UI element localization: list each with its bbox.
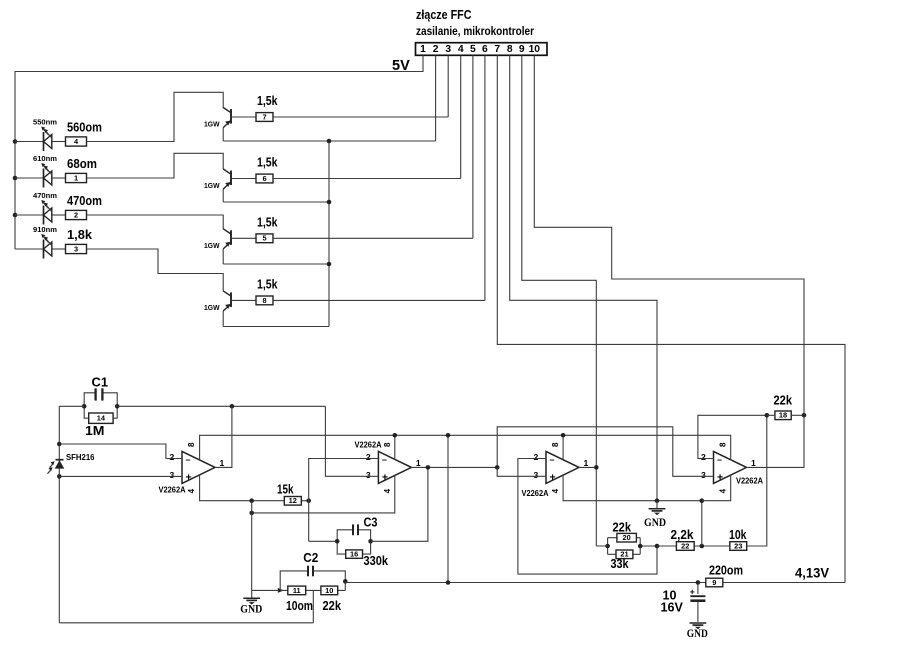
node R18 left [765, 413, 770, 418]
svg-text:1,5k: 1,5k [257, 156, 278, 170]
svg-text:1: 1 [416, 458, 421, 468]
node rail-V+ [446, 580, 451, 585]
resistor R11 box [288, 586, 306, 595]
svg-text:–: – [382, 454, 387, 464]
wire U3 pin8 riser [562, 435, 564, 460]
5V label [392, 58, 410, 74]
wire pin9 down [522, 55, 597, 546]
resistor R12 box [284, 496, 301, 505]
svg-text:6: 6 [482, 44, 488, 55]
ground G3 [690, 623, 707, 629]
LED D3 470nm [15, 200, 66, 225]
svg-text:2: 2 [74, 210, 78, 219]
svg-text:4: 4 [458, 44, 464, 55]
svg-text:10om: 10om [286, 599, 313, 613]
svg-text:2: 2 [170, 452, 175, 462]
op-amp U4 [714, 451, 747, 483]
svg-text:8: 8 [551, 442, 560, 447]
LED D2 610nm [15, 163, 66, 188]
node cap tap [696, 580, 701, 585]
node U2 -in net [306, 498, 311, 503]
wire U1 out to U2 +in [325, 406, 378, 476]
FFC connector title [416, 8, 472, 22]
resistors R20/R21 parallel [596, 538, 657, 555]
svg-text:14: 14 [97, 414, 106, 423]
svg-text:1GW: 1GW [204, 120, 220, 129]
label GND G3 [687, 627, 708, 640]
wire U4 -in riser [698, 415, 767, 458]
svg-text:C1: C1 [92, 375, 109, 390]
svg-text:1: 1 [220, 458, 225, 468]
svg-text:9: 9 [519, 44, 525, 55]
svg-text:1,8k: 1,8k [67, 228, 93, 242]
svg-text:3: 3 [74, 244, 78, 253]
wire R18 left stub [767, 414, 775, 416]
svg-text:220om: 220om [709, 563, 743, 577]
wire R7 to pin3 [273, 116, 448, 118]
label 4,13V [795, 565, 829, 581]
wire U4 pin4 [702, 475, 731, 501]
label 550nm [33, 117, 57, 126]
node emitter rail top [327, 139, 332, 144]
node gnd tap [249, 498, 254, 503]
wire pin5 down [472, 55, 474, 238]
svg-text:1: 1 [74, 173, 78, 182]
resistor R2 box [66, 210, 87, 219]
label 1M [85, 424, 105, 438]
node U3 pin8 [561, 433, 566, 438]
node 5V-row2 [13, 176, 18, 181]
capacitor C3 [337, 524, 370, 554]
svg-text:GND: GND [240, 603, 262, 616]
svg-text:–: – [550, 454, 555, 464]
resistor R5 box [256, 234, 273, 243]
label GND G1 [240, 603, 262, 616]
svg-text:12: 12 [289, 496, 297, 505]
node U3 out [594, 465, 599, 470]
wire gnd to C2 [252, 589, 281, 591]
wire U4 output fb [747, 415, 805, 467]
wire R5 to pin5 [273, 237, 473, 239]
capacitor C4 electrolytic [690, 583, 706, 622]
node C1 right [115, 404, 120, 409]
svg-text:+: + [186, 471, 192, 483]
wire Q1 base [231, 116, 256, 118]
wire mid div to gnd rail [701, 501, 703, 546]
label V2262A U3 [522, 489, 549, 498]
op-amp U3 [546, 451, 579, 483]
node 5V-row3 [13, 213, 18, 218]
label 1,5k Q1 [257, 94, 278, 108]
svg-text:610nm: 610nm [33, 154, 57, 163]
wire R18 right [791, 414, 804, 416]
svg-text:8: 8 [507, 44, 513, 55]
node C3 right [368, 539, 373, 544]
svg-text:8: 8 [383, 442, 392, 447]
emitter common rail [328, 141, 330, 327]
resistor R7 box [256, 112, 273, 121]
ground G2 [649, 501, 666, 515]
LED D4 910nm [15, 234, 66, 259]
wire Q3 base [231, 237, 256, 239]
resistor R18 box [775, 411, 791, 420]
label 560om [67, 120, 102, 134]
svg-text:4: 4 [551, 488, 560, 493]
node U1 fb [230, 404, 235, 409]
label V2262A U1 [159, 485, 186, 494]
node gnd rail end [700, 498, 705, 503]
op-amp U2 pin labels [366, 442, 421, 493]
svg-text:3: 3 [445, 44, 451, 55]
label 330k [364, 554, 389, 568]
node mid div [700, 544, 705, 549]
svg-text:10: 10 [325, 586, 333, 595]
capacitor C2 [280, 566, 345, 591]
node 5V-row1 [13, 139, 18, 144]
wire Q1 emitter to pin2 [223, 140, 435, 142]
wire to U1 +in [59, 475, 182, 477]
svg-text:8: 8 [187, 442, 196, 447]
resistor R16 box [346, 550, 363, 559]
svg-text:11: 11 [293, 586, 301, 595]
wire pin6 down [484, 55, 486, 300]
transistor Q2 [223, 169, 231, 202]
wire to U3 +in [497, 467, 546, 476]
wire V+ to 4,13V rail [447, 435, 449, 582]
svg-text:10k: 10k [729, 528, 747, 542]
wire U1 output up [215, 406, 232, 467]
resistor R8 box [256, 296, 273, 305]
svg-text:V2262A: V2262A [355, 441, 382, 450]
svg-text:23: 23 [734, 541, 742, 550]
connector J1 (10-pin FFC) [416, 43, 548, 56]
svg-text:1GW: 1GW [204, 181, 220, 190]
svg-text:470nm: 470nm [33, 191, 57, 200]
wire Q2 base [231, 178, 256, 180]
svg-text:SFH216: SFH216 [66, 453, 95, 462]
svg-text:3: 3 [366, 470, 371, 480]
svg-text:–: – [186, 454, 191, 464]
op-amp U2 [378, 451, 411, 483]
label 1GW Q4 [204, 303, 220, 312]
wire U3 -in [518, 459, 657, 575]
wire R8 to pin6 [273, 299, 485, 301]
wire U2 pin8 riser [394, 435, 396, 460]
svg-text:16V: 16V [661, 601, 684, 615]
wire Q3 emitter [223, 263, 329, 265]
resistor R23 box [730, 541, 747, 550]
svg-text:22: 22 [681, 541, 689, 550]
svg-text:3: 3 [170, 470, 175, 480]
ground G1 [243, 598, 260, 604]
svg-text:4: 4 [187, 488, 196, 493]
node U2 out fb [426, 465, 431, 470]
svg-text:18: 18 [779, 411, 787, 420]
label 16V [661, 601, 684, 615]
svg-text:7: 7 [494, 44, 500, 55]
svg-text:68om: 68om [67, 157, 97, 171]
label 470om [67, 194, 102, 208]
resistor R6 box [256, 174, 273, 183]
node C2 out [343, 579, 348, 584]
svg-text:2: 2 [534, 452, 539, 462]
svg-text:1: 1 [584, 458, 589, 468]
wire Q2 emitter [223, 201, 329, 203]
node emitter rail q2 [327, 200, 332, 205]
svg-text:1,5k: 1,5k [257, 216, 278, 230]
label 1,5k Q3 [257, 216, 278, 230]
op-amp U3 pin labels [534, 442, 589, 493]
op-amp U1 [182, 451, 215, 483]
svg-text:złącze FFC: złącze FFC [416, 8, 472, 22]
transistor Q1 [223, 108, 231, 142]
svg-text:22k: 22k [774, 394, 793, 408]
resistor R4 box [66, 137, 87, 146]
svg-text:7: 7 [262, 112, 266, 121]
svg-text:zasilanie, mikrokontroler: zasilanie, mikrokontroler [416, 24, 534, 38]
wire U3 output [579, 466, 596, 468]
node emitter rail q3 [327, 262, 332, 267]
wire div to R22 [657, 545, 676, 547]
label 33k [611, 557, 630, 571]
resistor R20 box [617, 533, 637, 542]
wire U2 pin4 [252, 475, 395, 513]
label 10 [663, 589, 677, 603]
transistor Q3 [223, 229, 231, 264]
node div right [638, 544, 643, 549]
label 220om [709, 563, 743, 577]
wire C1 right to U1 output [117, 405, 325, 407]
photodiode SFH216 [48, 460, 65, 474]
svg-text:8: 8 [262, 296, 266, 305]
label 1,5k Q4 [257, 278, 278, 292]
node pd cathode net [57, 442, 62, 447]
label 10om [286, 599, 313, 613]
op-amp U1 pin labels [170, 442, 225, 493]
svg-text:33k: 33k [611, 557, 630, 571]
node pd anode net [57, 474, 62, 479]
svg-text:1GW: 1GW [204, 241, 220, 250]
svg-text:6: 6 [262, 174, 266, 183]
label 910nm [33, 225, 57, 234]
svg-text:V2262A: V2262A [159, 485, 186, 494]
wire U2 -in riser [309, 459, 379, 542]
node gnd rail pin8 [655, 498, 660, 503]
wire Q4 base [231, 299, 256, 301]
wire pin3 down [447, 55, 449, 117]
capacitor C1 [84, 388, 117, 418]
label 2,2k [671, 528, 695, 542]
svg-text:+: + [382, 471, 388, 483]
svg-text:1,5k: 1,5k [257, 94, 278, 108]
node C1 left [82, 404, 87, 409]
resistor R3 box [66, 244, 87, 253]
LED D1 550nm [15, 127, 66, 152]
4,13V rail [345, 582, 845, 584]
svg-text:GND: GND [644, 516, 666, 529]
svg-text:4: 4 [718, 488, 727, 493]
V+ supply rail [200, 435, 731, 460]
node div gnd [655, 544, 660, 549]
svg-text:1: 1 [420, 44, 426, 55]
wire R22 to R23 [694, 545, 730, 547]
label 1,8k [67, 228, 93, 242]
op-amp U4 pin labels [701, 442, 756, 493]
node gnd tap2 [249, 511, 254, 516]
label 1GW Q3 [204, 241, 220, 250]
svg-text:C2: C2 [303, 550, 318, 565]
node U2out-U3 [495, 465, 500, 470]
svg-text:1: 1 [751, 458, 756, 468]
resistor R1 box [66, 173, 87, 182]
FFC connector subtitle [416, 24, 534, 38]
resistor R9 box [706, 578, 723, 587]
svg-text:V2262A: V2262A [736, 477, 763, 486]
photodiode input rail [58, 406, 60, 623]
svg-text:1M: 1M [85, 424, 105, 438]
node div left [605, 544, 610, 549]
wire pin2 down [435, 55, 437, 141]
label 15k [277, 482, 294, 496]
label V2262A U4 [736, 477, 763, 486]
wire pin10 down [534, 55, 804, 415]
svg-text:+: + [550, 471, 556, 483]
junction arrow C2 [278, 588, 284, 593]
node U2 pin8 [393, 433, 398, 438]
wire gnd drop [251, 501, 253, 598]
wire pin4 down [460, 55, 462, 178]
wire D4 to Q4 collector [87, 249, 224, 291]
wire to U1 -in [59, 444, 182, 459]
wire pin8 to GND rail [510, 55, 657, 500]
label 1GW Q2 [204, 181, 220, 190]
wire bottom return [59, 622, 313, 624]
svg-text:3: 3 [701, 470, 706, 480]
wire U2 output [411, 466, 497, 468]
label 610nm [33, 154, 57, 163]
label V2262A U2 [355, 441, 382, 450]
svg-text:5: 5 [470, 44, 476, 55]
wire U1 pin4 [200, 475, 309, 501]
transistor Q4 [223, 291, 231, 327]
svg-text:+: + [690, 586, 695, 596]
wire U2 out to U4 +in [497, 427, 713, 477]
wire Q4 emitter [223, 326, 329, 328]
svg-text:22k: 22k [323, 599, 342, 613]
label 22k R20 [613, 520, 632, 534]
label C2 [303, 550, 318, 565]
svg-text:2: 2 [433, 44, 439, 55]
wire divider tap [312, 590, 314, 622]
label 10k [729, 528, 747, 542]
svg-text:2,2k: 2,2k [671, 528, 695, 542]
svg-text:470om: 470om [67, 194, 102, 208]
svg-text:C3: C3 [364, 514, 378, 529]
wire pin1 to 5V rail [15, 55, 423, 249]
label 470nm [33, 191, 57, 200]
svg-text:V2262A: V2262A [522, 489, 549, 498]
svg-text:5: 5 [262, 234, 266, 243]
wire C1 left to input node [59, 405, 84, 407]
wire C3 to U2 out [371, 467, 428, 541]
resistor R21 box [616, 550, 633, 559]
svg-text:+: + [717, 471, 723, 483]
label 1GW Q1 [204, 120, 220, 129]
svg-text:15k: 15k [277, 482, 294, 496]
svg-text:330k: 330k [364, 554, 389, 568]
wire U3 pin4 gnd rail [563, 475, 702, 501]
wire D2 to Q2 collector [87, 153, 224, 178]
svg-text:1GW: 1GW [204, 303, 220, 312]
node R18 right [802, 413, 807, 418]
label SFH216 [66, 453, 95, 462]
label 1,5k Q2 [257, 156, 278, 170]
svg-text:2: 2 [701, 452, 706, 462]
resistor R22 box [676, 541, 694, 550]
label C1 [92, 375, 109, 390]
svg-text:–: – [717, 454, 722, 464]
svg-text:550nm: 550nm [33, 117, 57, 126]
svg-text:560om: 560om [67, 120, 102, 134]
wire to C3 left node [309, 540, 338, 542]
svg-text:3: 3 [534, 470, 539, 480]
svg-text:10: 10 [529, 44, 541, 55]
label 68om [67, 157, 97, 171]
svg-text:9: 9 [712, 578, 716, 587]
label 22k R18 [774, 394, 793, 408]
wire D1 to Q1 collector [87, 92, 224, 141]
svg-text:4,13V: 4,13V [795, 565, 829, 581]
resistor R10 box [321, 586, 338, 595]
svg-text:1,5k: 1,5k [257, 278, 278, 292]
wire pin7 to 4,13V rail [497, 55, 845, 582]
wire R23 to U4 -in [747, 415, 767, 546]
wire D3 to Q3 collector [87, 215, 224, 229]
svg-text:8: 8 [718, 442, 727, 447]
svg-text:2: 2 [366, 452, 371, 462]
svg-text:16: 16 [350, 550, 358, 559]
svg-text:4: 4 [383, 488, 392, 493]
label GND G2 [644, 516, 666, 529]
resistor R14 box [89, 413, 113, 423]
label 22k R10 [323, 599, 342, 613]
svg-text:910nm: 910nm [33, 225, 57, 234]
node C3 left [335, 539, 340, 544]
svg-text:20: 20 [623, 533, 631, 542]
node V+ tap [446, 433, 451, 438]
label C3 [364, 514, 378, 529]
svg-text:GND: GND [687, 627, 708, 640]
wire R6 to pin4 [273, 178, 461, 180]
